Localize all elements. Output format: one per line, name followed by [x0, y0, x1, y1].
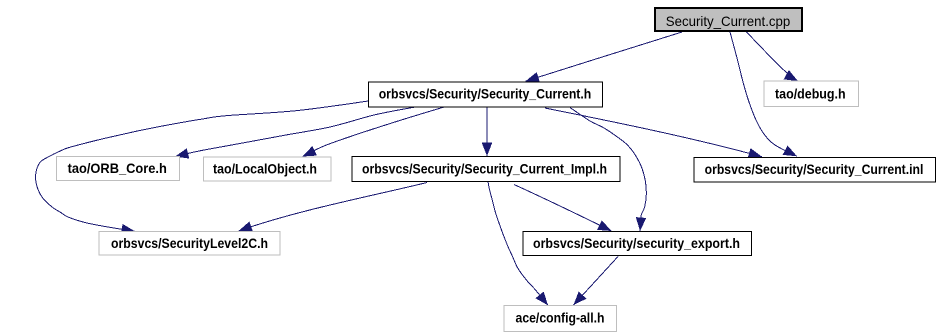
node tao/LocalObject.h	[204, 157, 331, 181]
wire edge security_export.h to ace/config-all.h	[574, 257, 619, 306]
wire edge Security_Current.h to tao/ORB_Core.h	[175, 107, 417, 157]
node orbsvcs/Security/security_export.h	[523, 232, 751, 256]
node ace/config-all.h	[504, 305, 617, 331]
node orbsvcs/Security/Security_Current.h	[368, 82, 602, 107]
svg-text:orbsvcs/Security/Security_Curr: orbsvcs/Security/Security_Current_Impl.h	[362, 161, 607, 177]
svg-text:Security_Current.cpp: Security_Current.cpp	[666, 13, 791, 29]
node orbsvcs/SecurityLevel2C.h	[99, 232, 280, 256]
wire edge Security_Current_Impl.h to security_export.h	[514, 185, 612, 232]
svg-text:tao/LocalObject.h: tao/LocalObject.h	[213, 161, 317, 177]
node orbsvcs/Security/Security_Current.inl	[694, 157, 935, 181]
node Security_Current.cpp (root, gray)	[654, 7, 803, 32]
svg-text:tao/ORB_Core.h: tao/ORB_Core.h	[68, 160, 167, 176]
wire edge Security_Current_Impl.h to SecurityLevel2C.h	[239, 183, 428, 232]
wire edge Security_Current.cpp to Security_Current.inl	[730, 32, 797, 156]
svg-text:tao/debug.h: tao/debug.h	[775, 85, 846, 101]
node tao/ORB_Core.h	[56, 157, 179, 181]
wire edge Security_Current.h to SecurityLevel2C.h (big left curve)	[36, 101, 369, 231]
svg-text:orbsvcs/Security/Security_Curr: orbsvcs/Security/Security_Current.inl	[705, 161, 924, 177]
wire edge Security_Current_Impl.h to ace/config-all.h	[488, 182, 548, 306]
wire edge Security_Current.cpp to tao/debug.h	[746, 32, 798, 82]
node orbsvcs/Security/Security_Current_Impl.h	[352, 157, 620, 182]
svg-text:ace/config-all.h: ace/config-all.h	[516, 309, 605, 325]
svg-text:orbsvcs/Security/Security_Curr: orbsvcs/Security/Security_Current.h	[379, 86, 592, 102]
node tao/debug.h	[764, 81, 859, 107]
svg-text:orbsvcs/SecurityLevel2C.h: orbsvcs/SecurityLevel2C.h	[111, 235, 268, 251]
wire edge Security_Current.h to Security_Current_Impl.h (vertical)	[486, 107, 488, 156]
wire edge Security_Current.cpp to Security_Current.h	[526, 32, 683, 81]
svg-text:orbsvcs/Security/security_expo: orbsvcs/Security/security_export.h	[533, 235, 740, 251]
wire edge Security_Current.h to security_export.h	[570, 108, 646, 231]
wire edge Security_Current.h to Security_Current.inl	[545, 108, 762, 157]
wire edge Security_Current.h to tao/LocalObject.h	[303, 107, 445, 157]
